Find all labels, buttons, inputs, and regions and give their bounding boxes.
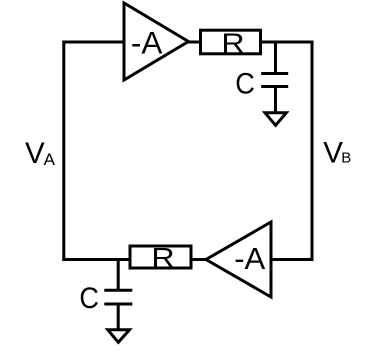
svg-text:A: A	[44, 150, 56, 169]
svg-text:C: C	[79, 282, 99, 315]
svg-text:C: C	[235, 68, 255, 101]
svg-text:-A: -A	[234, 241, 265, 276]
svg-text:V: V	[323, 136, 343, 169]
svg-text:R: R	[221, 27, 244, 58]
svg-text:-A: -A	[131, 24, 163, 60]
svg-text:R: R	[151, 242, 174, 273]
svg-text:B: B	[341, 150, 351, 167]
svg-text:V: V	[25, 137, 45, 170]
